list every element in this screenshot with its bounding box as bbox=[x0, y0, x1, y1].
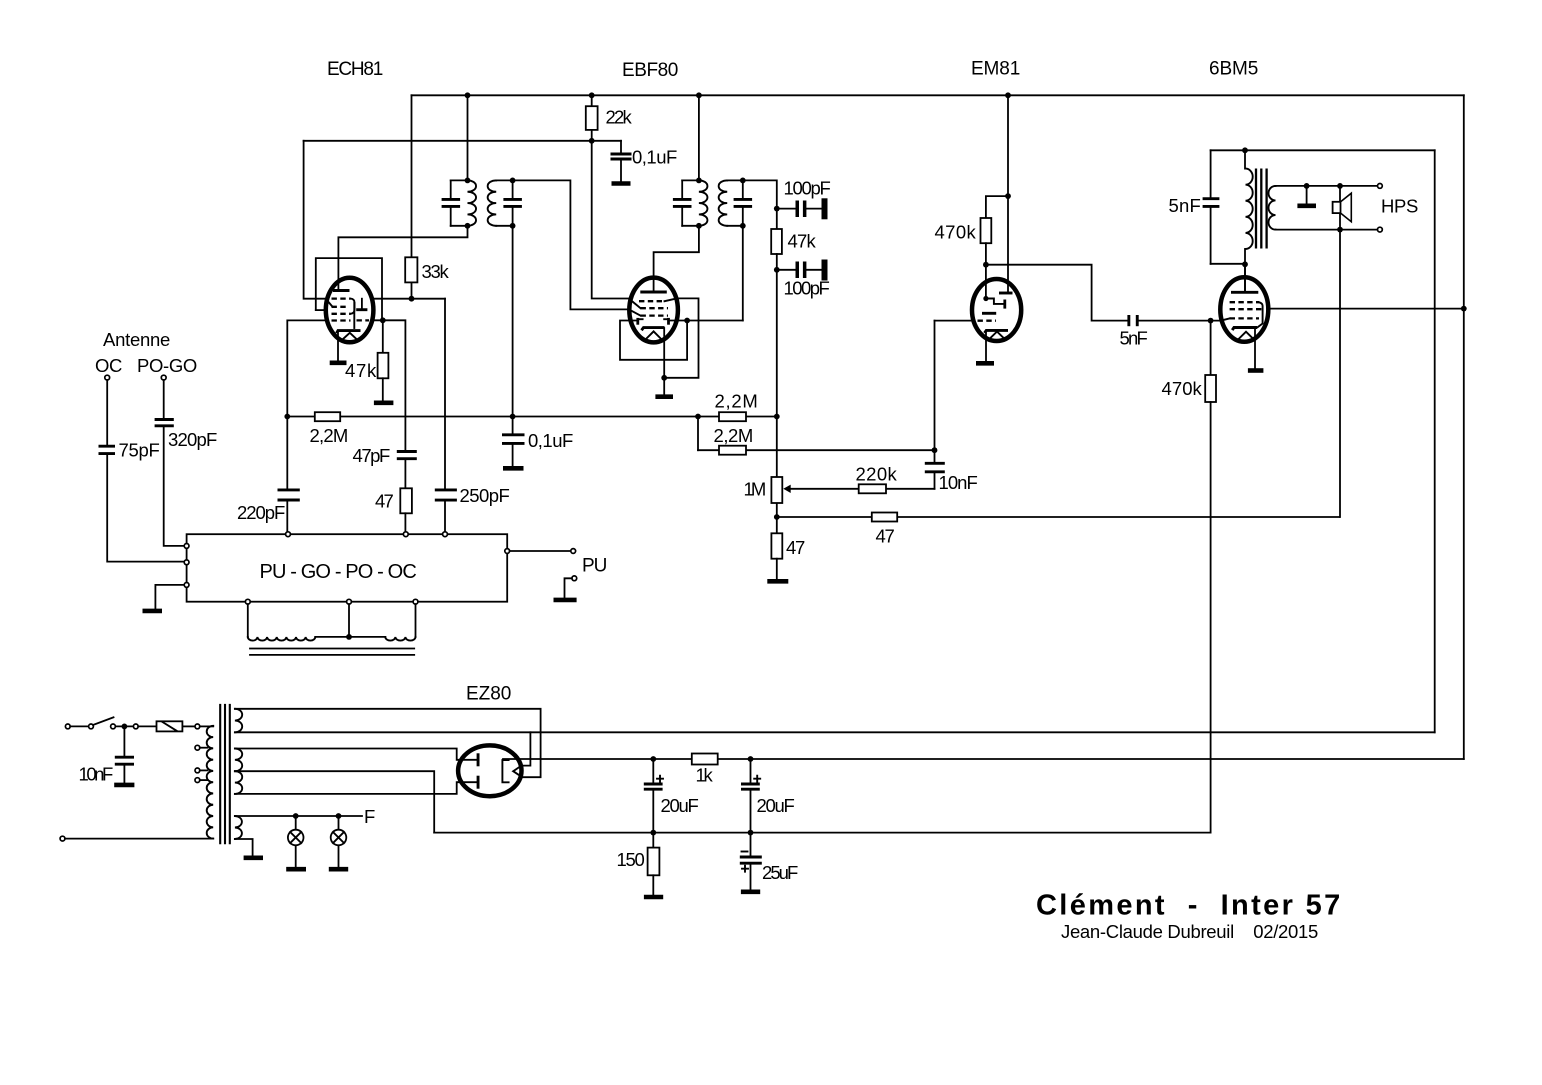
resistor 2,2M upper of pair bbox=[719, 412, 746, 421]
resistor 47k IF detector bbox=[776, 209, 778, 229]
wire OC to 75pF to box bbox=[107, 380, 184, 562]
ground PU bbox=[554, 598, 577, 603]
ground 6,3V winding bbox=[244, 855, 263, 860]
terminal box left 3 ground bbox=[184, 583, 189, 588]
node EBF80 diode bbox=[684, 318, 690, 324]
wire 2,2M pair bracket bbox=[697, 417, 699, 451]
tube ECH81 envelope bbox=[326, 278, 374, 343]
terminal box bottom mid bbox=[347, 599, 352, 604]
wire AVC line bbox=[287, 416, 777, 418]
ECH81 g3 left diagonal bbox=[326, 299, 332, 307]
terminal fuse out bbox=[195, 724, 200, 729]
inductor secondary HT winding upper bbox=[235, 748, 242, 771]
terminal OC bbox=[105, 375, 110, 380]
wire IF2 secondary bottom to diode bbox=[742, 226, 744, 321]
svg-text:100pF: 100pF bbox=[784, 178, 831, 199]
node rail-22k bbox=[589, 92, 595, 98]
inductor IF1 primary coil bbox=[468, 180, 477, 225]
inductor IF2 primary coil bbox=[699, 180, 708, 225]
wire EM81 grid feed vertical bbox=[934, 321, 936, 462]
svg-text:47k: 47k bbox=[345, 360, 377, 381]
wire 6BM5 screen out bbox=[1268, 308, 1464, 310]
potentiometer 1M bbox=[776, 417, 778, 518]
svg-text:220pF: 220pF bbox=[237, 502, 285, 523]
svg-text:Antenne: Antenne bbox=[103, 329, 170, 350]
node HPS top chassis bbox=[1304, 183, 1310, 189]
wire to primary top bbox=[200, 725, 213, 727]
svg-text:2,2M: 2,2M bbox=[714, 425, 754, 446]
EBF80 g2 row bbox=[641, 307, 669, 309]
svg-text:5nF: 5nF bbox=[1120, 328, 1148, 349]
speaker HPS bbox=[1339, 186, 1341, 230]
terminal box top 47 bbox=[403, 532, 408, 537]
wire 47k junction down to AVC bbox=[776, 270, 778, 417]
inductor secondary 6,3V winding bbox=[235, 816, 242, 839]
wire EZ80 heater line right vertical bbox=[1434, 150, 1436, 732]
ground chassis on HPS top bbox=[1306, 186, 1308, 204]
node IF2 primary bottom bbox=[682, 225, 699, 227]
svg-text:150: 150 bbox=[617, 849, 645, 870]
capacitor 250pF bbox=[435, 490, 457, 500]
resistor 33k bbox=[405, 257, 417, 282]
wire PO-GO to 320pF to box bbox=[164, 380, 184, 546]
inductor oscillator coil right section bbox=[385, 637, 415, 641]
wire 33k feed from rail bbox=[411, 95, 413, 257]
6BM5 cathode arrow bbox=[1239, 332, 1253, 339]
svg-text:PU - GO - PO - OC: PU - GO - PO - OC bbox=[260, 561, 417, 583]
node IF2 sec top bbox=[740, 178, 746, 184]
svg-text:470k: 470k bbox=[1162, 378, 1203, 399]
terminal primary tap 2 bbox=[195, 768, 200, 773]
6BM5 g2 row bbox=[1230, 308, 1262, 310]
svg-text:PU: PU bbox=[582, 556, 607, 577]
svg-text:Clément - Inter 57: Clément - Inter 57 bbox=[1036, 890, 1340, 922]
lamp 1 bbox=[295, 816, 297, 867]
capacitor 100pF upper bbox=[777, 208, 795, 210]
node IF1 primary bottom bbox=[451, 225, 468, 227]
wire osc coil right leg bbox=[415, 604, 417, 637]
node rail-IF1 bbox=[465, 92, 471, 98]
wire HPS bottom to 47 line bbox=[1339, 230, 1341, 517]
wire 250pF vertical bbox=[444, 299, 446, 535]
wire EBF80 g3 to cathode link bbox=[664, 298, 698, 377]
svg-text:220k: 220k bbox=[856, 464, 898, 485]
svg-text:EZ80: EZ80 bbox=[466, 684, 511, 705]
wire osc coil middle link bbox=[315, 636, 385, 638]
wire ECH81 grid box bbox=[316, 258, 382, 320]
svg-text:Jean-Claude Dubreuil 02/201: Jean-Claude Dubreuil 02/2015 bbox=[1061, 921, 1318, 942]
ground 0,1uF AVC bbox=[503, 466, 524, 471]
capacitor 75pF bbox=[99, 446, 116, 453]
capacitor 220pF bbox=[278, 490, 300, 500]
ground ECH81 cathode bbox=[330, 360, 347, 365]
svg-text:OC: OC bbox=[95, 355, 122, 376]
ECH81 triode plate bbox=[361, 299, 363, 310]
ground 6BM5 cathode bbox=[1248, 368, 1264, 373]
EZ80 plate upper bbox=[458, 759, 477, 761]
terminal PU ground bbox=[572, 576, 577, 581]
inductor secondary HT winding lower bbox=[235, 771, 242, 794]
svg-text:EM81: EM81 bbox=[971, 59, 1020, 80]
capacitor 10nF mains bbox=[123, 726, 125, 782]
svg-text:47: 47 bbox=[375, 491, 394, 512]
terminal mains L bbox=[65, 724, 70, 729]
ground EM81 cathode bbox=[976, 361, 994, 366]
svg-text:47: 47 bbox=[786, 537, 805, 558]
wire B+ line from EZ80 cathode to right edge bbox=[503, 758, 1464, 760]
terminal box right PU bbox=[505, 549, 510, 554]
capacitor 20uF second bbox=[750, 759, 752, 833]
node IF1 sec bottom bbox=[510, 223, 516, 229]
6BM5 g3 to cathode link bbox=[1258, 302, 1263, 327]
wire ECH81 triode plate to 250pF branch bbox=[373, 298, 445, 300]
switch mains bbox=[89, 724, 94, 729]
wire EZ80 heater A bbox=[235, 709, 541, 777]
EBF80 g3 right diagonal bbox=[665, 298, 677, 301]
terminal box bottom right bbox=[413, 599, 418, 604]
svg-text:2,2M: 2,2M bbox=[310, 425, 349, 446]
svg-text:25uF: 25uF bbox=[762, 862, 798, 883]
svg-text:F: F bbox=[364, 806, 375, 827]
svg-text:47pF: 47pF bbox=[353, 445, 391, 466]
wire B+ top rail bbox=[412, 94, 1464, 96]
inductor mains transformer primary bbox=[207, 726, 214, 839]
resistor 47 vertical below pot bbox=[776, 517, 778, 533]
resistor 220k bbox=[787, 488, 935, 490]
wire HT lower to EZ80 plate bbox=[235, 782, 457, 794]
ECH81 g2-g4 bracket bbox=[351, 299, 355, 314]
capacitor IF1 secondary tuning cap bbox=[512, 180, 514, 225]
node HPS bottom speaker bbox=[1337, 227, 1343, 233]
terminal box bottom left bbox=[245, 599, 250, 604]
wire EM81 output to 5nF bbox=[986, 265, 1128, 321]
ECH81 hexode plate bbox=[333, 289, 350, 292]
wire IF1 secondary bottom to AVC line bbox=[512, 226, 514, 417]
EBF80 cathode bar bbox=[642, 328, 665, 331]
node OPT bottom plate bbox=[1242, 261, 1248, 267]
wire EM81 cathode to ground bbox=[985, 331, 987, 361]
EZ80 heater arrow bbox=[513, 766, 520, 776]
node IF2 secondary bottom bbox=[727, 225, 743, 227]
resistor 1k filter bbox=[692, 754, 718, 765]
wire mains N to primary bottom bbox=[65, 838, 213, 840]
capacitor 320pF bbox=[155, 420, 174, 426]
wiper arrow into 1M pot bbox=[783, 485, 790, 493]
node IF1 primary top bbox=[451, 179, 468, 181]
node ECH81 triode grid bbox=[380, 317, 386, 323]
capacitor 0,1uF AVC bbox=[512, 417, 514, 467]
terminal mains N bbox=[60, 836, 65, 841]
ground lamp 1 bbox=[286, 867, 306, 872]
svg-text:20uF: 20uF bbox=[661, 795, 699, 816]
svg-text:22k: 22k bbox=[606, 107, 633, 128]
tube 6BM5 envelope bbox=[1220, 277, 1268, 342]
capacitor IF2 primary tuning cap bbox=[681, 180, 683, 225]
svg-text:75pF: 75pF bbox=[119, 440, 160, 461]
node 6BM5 grid bbox=[1208, 318, 1214, 324]
wire EM81 feed from rail bbox=[1007, 95, 1009, 291]
ground 25uF bbox=[741, 889, 760, 894]
EBF80 g3 row bbox=[639, 300, 664, 302]
terminal HPS top bbox=[1378, 184, 1383, 189]
resistor 470k 6BM5 bbox=[1205, 375, 1216, 402]
node 6BM5 screen rail bbox=[1461, 306, 1467, 312]
6BM5 cathode bar bbox=[1232, 328, 1257, 331]
EZ80 cathode bracket bbox=[502, 760, 508, 782]
ECH81 triode grid dashes bbox=[357, 319, 370, 321]
node AVC-0,1uF bbox=[510, 414, 516, 420]
capacitor 5nF coupling to 6BM5 bbox=[1127, 315, 1130, 326]
junction osc tap bbox=[346, 634, 352, 640]
wire OPT box top bbox=[1211, 149, 1435, 151]
resistor 470k EM81 bbox=[981, 218, 992, 243]
resistor 150 bbox=[652, 833, 654, 848]
wire 6BM5 plate node bbox=[1244, 264, 1246, 291]
resistor 22k bbox=[591, 95, 593, 141]
tube EM81 envelope bbox=[972, 279, 1021, 341]
node B- 150 bbox=[650, 830, 656, 836]
wire osc coil center tap bbox=[348, 604, 350, 637]
terminal box top 250pF bbox=[443, 532, 448, 537]
inductor OPT primary bbox=[1246, 169, 1253, 249]
wire box ground bbox=[155, 585, 184, 609]
fuse bbox=[157, 721, 183, 731]
wire 6BM5 cathode to ground bbox=[1254, 329, 1256, 369]
ECH81 cathode arrow bbox=[343, 333, 358, 340]
terminal primary tap 3 bbox=[195, 778, 200, 783]
svg-text:10nF: 10nF bbox=[79, 764, 114, 785]
node AVC-pot bbox=[774, 414, 780, 420]
wire HT center tap to B- rail bbox=[235, 771, 434, 832]
svg-text:33k: 33k bbox=[422, 261, 450, 282]
wire 6,3V return to ground bbox=[235, 839, 253, 856]
wire HT upper to EZ80 plate bbox=[235, 749, 457, 760]
terminal box left 1 bbox=[184, 544, 189, 549]
wire 47pF to 47 ohm bbox=[404, 460, 406, 488]
node IF2 pri bottom bbox=[696, 223, 702, 229]
ground at 0,1uF screen cap bbox=[612, 181, 631, 186]
wire ECH81 triode grid to 47pF bbox=[373, 320, 405, 450]
wire EBF80 diode bus with box bbox=[620, 321, 687, 360]
node B+ 20uF2 bbox=[748, 756, 754, 762]
svg-text:20uF: 20uF bbox=[757, 795, 795, 816]
ECH81 grid rows bbox=[332, 297, 351, 299]
inductor oscillator coil left section bbox=[248, 637, 315, 641]
wire IF1 primary bottom to ECH81 plate bbox=[338, 226, 467, 291]
terminal primary tap 1 bbox=[195, 745, 200, 750]
svg-text:EBF80: EBF80 bbox=[622, 60, 678, 81]
capacitor 0,1uF at EBF80 screen bbox=[620, 141, 622, 181]
6BM5 g1 row bbox=[1230, 317, 1259, 319]
node F lamp1 bbox=[293, 813, 299, 819]
wire B- bottom rail bbox=[434, 832, 1210, 834]
tube EBF80 envelope bbox=[629, 278, 678, 343]
resistor 47 horizontal bbox=[872, 513, 897, 522]
wire 5nF to plate node bbox=[1211, 263, 1245, 265]
EBF80 g1 row bbox=[641, 314, 669, 316]
node EM81 output bbox=[983, 262, 989, 268]
wire EBF80 diode to IF2 secondary bbox=[670, 320, 743, 322]
wire osc coil left leg bbox=[247, 604, 249, 637]
resistor 2,2M lower of pair bbox=[698, 449, 935, 451]
node 100pF upper bbox=[774, 206, 780, 212]
ground ECH81 47k bbox=[374, 400, 394, 405]
wire 6BM5 grid to 470k bbox=[1210, 321, 1212, 375]
node rail-EM81 bbox=[1005, 92, 1011, 98]
svg-text:PO-GO: PO-GO bbox=[137, 355, 197, 376]
node IF2 sec bottom bbox=[740, 223, 746, 229]
svg-text:HPS: HPS bbox=[1381, 196, 1418, 217]
wire EBF80 screen feed bbox=[592, 141, 630, 299]
EBF80 g1 left diagonal bbox=[629, 310, 640, 316]
wire EZ80 heater B and long line to right bbox=[235, 731, 1435, 733]
resistor 47k ECH81 osc grid leak bbox=[382, 320, 384, 353]
node AVC-2,2M pair bbox=[695, 414, 701, 420]
6BM5 g1 left diagonal bbox=[1221, 318, 1230, 320]
wire ECH81 g1 to 220pF and AVC bbox=[287, 320, 326, 534]
wire HPS top lead bbox=[1276, 185, 1378, 187]
svg-text:5nF: 5nF bbox=[1169, 195, 1201, 216]
wire OPT primary feed bbox=[1244, 150, 1246, 168]
node EBF80 cathode bbox=[661, 375, 667, 381]
tube EZ80 envelope bbox=[458, 745, 521, 796]
EM81 cathode arrow bbox=[990, 332, 1003, 338]
svg-text:10nF: 10nF bbox=[939, 472, 978, 493]
inductor OPT secondary bbox=[1268, 186, 1275, 230]
capacitor IF1 primary tuning cap bbox=[450, 180, 452, 225]
wire right-edge B+ vertical bbox=[1463, 95, 1465, 759]
resistor 2,2M AVC bbox=[315, 412, 340, 421]
node B+ 20uF1 bbox=[650, 756, 656, 762]
wire ECH81 cathode to ground bbox=[337, 332, 339, 361]
svg-text:6BM5: 6BM5 bbox=[1209, 59, 1258, 80]
inductor IF1 secondary coil bbox=[488, 180, 497, 225]
node B- 25uF bbox=[748, 830, 754, 836]
node IF2 primary top bbox=[682, 179, 699, 181]
node pot bottom bbox=[774, 514, 780, 520]
EM81 cathode bar bbox=[985, 330, 1009, 333]
capacitor 100pF lower bbox=[777, 269, 795, 271]
wire 6,3V F line bbox=[235, 815, 362, 817]
wire ECH81 g box left stub bbox=[316, 309, 326, 311]
ground 150 bbox=[644, 895, 663, 900]
node IF1 pri top bbox=[465, 178, 471, 184]
capacitor IF2 secondary tuning cap bbox=[742, 180, 744, 225]
wire IF1 secondary top to EBF80 grid bbox=[496, 180, 629, 309]
ground EBF80 cathode bbox=[655, 394, 673, 399]
node rail-IF2 bbox=[696, 92, 702, 98]
ground 47 vertical bbox=[767, 579, 788, 584]
terminal box left 2 bbox=[184, 560, 189, 565]
node F lamp2 bbox=[336, 813, 342, 819]
capacitor 5nF snubber bbox=[1210, 150, 1212, 263]
svg-text:470k: 470k bbox=[935, 222, 977, 243]
ground lamp 2 bbox=[329, 867, 348, 872]
node 10nF-2,2M bbox=[932, 447, 938, 453]
wire PU ground bbox=[565, 578, 572, 597]
capacitor 25uF bbox=[750, 833, 752, 890]
coil box PU-GO-PO-OC bbox=[187, 534, 508, 602]
node 33k bottom bbox=[409, 296, 415, 302]
EBF80 cathode arrow bbox=[647, 331, 661, 338]
ECH81 cathode line bbox=[353, 303, 355, 328]
svg-text:100pF: 100pF bbox=[784, 278, 830, 299]
wire EBF80 cathode to ground bbox=[663, 328, 665, 394]
capacitor 20uF first bbox=[652, 759, 654, 833]
svg-text:1M: 1M bbox=[744, 479, 767, 500]
wire pot bottom to 47 line bbox=[777, 516, 1340, 518]
node EM81 bracket bbox=[1005, 193, 1011, 199]
svg-text:47k: 47k bbox=[788, 231, 817, 252]
6BM5 plate bar bbox=[1231, 291, 1258, 294]
wire EM81 deflector lead bbox=[985, 265, 987, 299]
svg-text:1k: 1k bbox=[696, 765, 714, 786]
wire IF2 primary bottom to EBF80 plate bbox=[654, 226, 699, 291]
wire PU bbox=[510, 550, 571, 552]
wire screen rail y141 bbox=[304, 140, 621, 142]
svg-text:ECH81: ECH81 bbox=[327, 59, 383, 80]
wire EM81 470k bracket bbox=[986, 196, 1008, 218]
terminal HPS bottom bbox=[1378, 227, 1383, 232]
terminal PO-GO bbox=[161, 375, 166, 380]
mains transformer core bbox=[220, 704, 230, 844]
svg-text:250pF: 250pF bbox=[460, 485, 510, 506]
EM81 triode grid bar bbox=[982, 312, 996, 315]
EBF80 g2 left diagonal bbox=[629, 299, 640, 308]
wire OPT primary bottom to 6BM5 plate bbox=[1244, 249, 1246, 291]
node 22k-0,1uF bbox=[589, 138, 595, 144]
node IF1 secondary bottom bbox=[496, 225, 512, 227]
wire mains to switch bbox=[70, 725, 89, 727]
terminal PU bbox=[571, 549, 576, 554]
EM81 deflector step bbox=[983, 296, 988, 301]
wire IF2 feed from rail bbox=[698, 95, 700, 180]
node IF1 pri bottom bbox=[465, 223, 471, 229]
EM81 target bar bbox=[999, 292, 1013, 295]
node IF1 sec top bbox=[510, 178, 516, 184]
EZ80 plate lower bbox=[458, 781, 477, 783]
EBF80 plate bbox=[640, 291, 667, 294]
node IF2 pri top bbox=[696, 178, 702, 184]
svg-text:320pF: 320pF bbox=[168, 429, 217, 450]
wire EM81 grid out bbox=[935, 320, 973, 322]
inductor IF2 secondary coil bbox=[719, 180, 728, 225]
ground antenna box bbox=[143, 609, 163, 614]
svg-text:47: 47 bbox=[876, 526, 895, 547]
ground 10nF mains bbox=[114, 783, 134, 788]
resistor 47 (ECH81 cathode osc) bbox=[400, 488, 412, 513]
node 100pF lower bbox=[774, 267, 780, 273]
node OPT top bbox=[1242, 147, 1248, 153]
wire plate feed to IF1 from rail bbox=[467, 95, 469, 180]
wire HPS bottom lead bbox=[1276, 229, 1378, 231]
svg-text:2,2M: 2,2M bbox=[715, 391, 758, 412]
wire IF2 secondary top to 100pF chain bbox=[727, 180, 777, 208]
capacitor 10nF AF bbox=[925, 463, 945, 472]
node AVC-220pF bbox=[284, 414, 290, 420]
OPT core bbox=[1256, 169, 1267, 249]
ECH81 cathode bar bbox=[337, 331, 361, 334]
capacitor 47pF bbox=[397, 452, 417, 459]
svg-text:0,1uF: 0,1uF bbox=[528, 430, 573, 451]
6BM5 g3 row bbox=[1230, 301, 1259, 303]
wire ECH81 g3 feed from screen rail bbox=[304, 141, 326, 299]
lamp 2 bbox=[338, 816, 340, 867]
osc coil core lines bbox=[249, 649, 415, 655]
EBF80 diode plates bbox=[636, 318, 639, 325]
svg-text:0,1uF: 0,1uF bbox=[632, 147, 677, 168]
EM81 grid dashes bbox=[978, 320, 997, 322]
